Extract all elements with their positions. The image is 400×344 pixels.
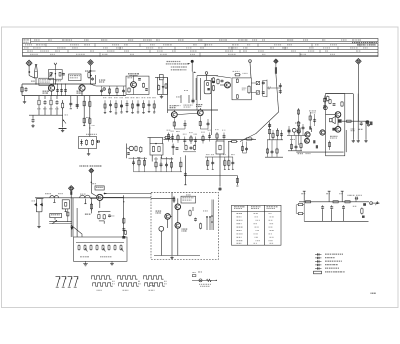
resistor R57 bbox=[83, 100, 85, 108]
wire W196 bbox=[207, 157, 209, 169]
capacitor C35 bbox=[108, 214, 111, 217]
capacitor C AGC bbox=[32, 118, 35, 123]
aux small box bbox=[192, 275, 196, 277]
resistor R65 bbox=[185, 145, 187, 151]
diode D3 bbox=[34, 203, 39, 207]
table header col2 line2 bbox=[251, 207, 259, 210]
table text entry bbox=[357, 44, 364, 45]
wire W202 bbox=[211, 200, 213, 231]
equals mark 2 bbox=[112, 282, 115, 285]
table cell bbox=[237, 243, 242, 244]
wire W165 bbox=[49, 221, 72, 223]
capacitor C14 bbox=[208, 135, 211, 138]
wire W4 bbox=[35, 78, 37, 84]
label AM osc line2 bbox=[130, 75, 138, 76]
switch resistor R23 bbox=[102, 244, 104, 250]
table cell bbox=[256, 230, 259, 231]
table text entry bbox=[323, 47, 330, 48]
capacitor C48 dark bbox=[363, 203, 366, 206]
resistor R58 bbox=[83, 117, 85, 125]
junction in coil box bbox=[55, 73, 56, 74]
ground tick 2 bbox=[137, 112, 138, 114]
table text entry bbox=[27, 51, 33, 52]
wire W201 bbox=[236, 176, 238, 186]
transistor TS5 IF amp BF195 bbox=[197, 110, 203, 116]
ground left column bbox=[23, 100, 26, 103]
value label bbox=[208, 129, 211, 132]
table cell bbox=[237, 216, 242, 217]
capacitor C40 dark bbox=[332, 128, 335, 131]
resistor R14 emitter bbox=[199, 120, 201, 126]
switch resistor R21 bbox=[90, 244, 92, 250]
value bbox=[359, 129, 363, 130]
wire W38 bbox=[153, 100, 155, 112]
label P1 bbox=[65, 114, 68, 117]
value bbox=[137, 156, 140, 159]
table cell bbox=[237, 233, 243, 234]
table cell bbox=[255, 237, 258, 238]
table cell bbox=[269, 220, 273, 221]
wire W149 bbox=[160, 157, 162, 172]
label box TS10 bbox=[181, 196, 196, 203]
wire W63 bbox=[162, 80, 164, 95]
element bottom-left bbox=[236, 94, 238, 98]
note text line bbox=[166, 63, 189, 64]
label detector bbox=[86, 134, 97, 135]
capacitor C8 bbox=[122, 90, 125, 93]
table text entry bbox=[282, 47, 288, 48]
coupling capacitor C1 bbox=[56, 89, 59, 92]
box dashed AF output stage bbox=[151, 192, 218, 259]
label text bbox=[184, 105, 193, 106]
wire W164 bbox=[54, 218, 56, 220]
legend symbol row 6 resistor bbox=[314, 271, 322, 274]
wire W6 bbox=[54, 79, 56, 84]
value label bbox=[201, 131, 205, 134]
resistor R66 bbox=[193, 145, 195, 151]
wire W188 bbox=[160, 231, 162, 255]
ground switch bbox=[37, 225, 40, 228]
value bbox=[32, 200, 36, 203]
transistor TS18 pre-driver bbox=[305, 132, 310, 137]
winding L8 bbox=[152, 146, 154, 152]
junction bus bbox=[90, 83, 91, 84]
IF capacitor C6 bbox=[126, 103, 129, 106]
resistor R11 bbox=[158, 85, 160, 91]
box IF transformer S3 bbox=[150, 144, 163, 156]
table text entry bbox=[262, 39, 265, 40]
capacitor C17 bbox=[160, 162, 163, 167]
wire W77 bbox=[180, 95, 182, 103]
element inside bbox=[65, 202, 67, 207]
table text entry bbox=[116, 47, 123, 48]
table text entry bbox=[101, 39, 107, 40]
wire W145 bbox=[138, 157, 140, 172]
transistor TS20 dark bbox=[366, 120, 370, 124]
wire W185 bbox=[170, 215, 172, 217]
coil L3 box bbox=[159, 75, 163, 80]
tick bbox=[83, 125, 85, 127]
table header col1 line2 bbox=[234, 207, 242, 210]
wire W60 bbox=[192, 72, 194, 99]
parts-list table border bbox=[23, 39, 379, 57]
value label bbox=[49, 107, 53, 110]
capacitor C4 bbox=[91, 77, 94, 80]
transistor TS4 IF amp BF194 bbox=[171, 112, 177, 118]
table cell divider bbox=[337, 47, 339, 50]
module label line2 bbox=[330, 137, 337, 140]
earphone jack terminal bbox=[370, 202, 373, 205]
wire W156 bbox=[35, 199, 37, 212]
table text entry bbox=[219, 39, 227, 40]
wire W84 bbox=[215, 76, 231, 78]
wire W18 bbox=[95, 75, 97, 84]
junction osc bus bbox=[55, 83, 56, 84]
value label above bbox=[109, 96, 112, 99]
wire W219 bbox=[345, 130, 347, 152]
wire W49 bbox=[62, 100, 64, 103]
wire W58 bbox=[191, 63, 193, 72]
speaker symbol bbox=[330, 117, 336, 124]
wire W12 bbox=[51, 91, 53, 96]
resistor R60 bbox=[89, 117, 91, 125]
wire W203 bbox=[213, 200, 215, 231]
wire W28 bbox=[90, 84, 96, 86]
table header line bbox=[232, 211, 282, 213]
resistor R12 bbox=[165, 83, 167, 89]
wire W117 bbox=[276, 140, 278, 157]
bus label c bbox=[80, 193, 86, 196]
resistor R28 bbox=[300, 143, 302, 149]
IF resistor R4 bbox=[131, 103, 133, 109]
value label above bbox=[142, 96, 146, 99]
arrow mark on link wire bbox=[104, 193, 107, 195]
resistor R41 bbox=[124, 230, 126, 235]
capacitor C17 bbox=[262, 82, 265, 85]
diode D7 bbox=[256, 91, 259, 94]
bus label b bbox=[58, 192, 63, 195]
square wave lower bbox=[145, 283, 165, 286]
wire W171 bbox=[91, 193, 97, 196]
wire W197 bbox=[212, 157, 214, 169]
table text entry bbox=[369, 44, 375, 45]
value line2 bbox=[242, 88, 245, 91]
ground tick 2 bbox=[115, 113, 116, 115]
transistor TS2 AM osc bbox=[79, 85, 85, 91]
resistor R59 bbox=[89, 100, 91, 108]
wire W27 bbox=[96, 85, 126, 87]
legend symbol row 1 bbox=[315, 253, 322, 255]
FM input terminal bbox=[103, 88, 106, 91]
ground tick bbox=[120, 111, 122, 113]
capacitor C12 bbox=[207, 122, 210, 126]
table cell divider bbox=[99, 53, 101, 57]
wire W206 bbox=[352, 94, 354, 139]
transistor TS1 AM mixer bbox=[48, 85, 54, 91]
wire W139 bbox=[172, 144, 174, 155]
wire W123 bbox=[288, 126, 290, 136]
table text entry bbox=[228, 54, 236, 55]
resistor R42 bbox=[189, 210, 191, 217]
wire W215 bbox=[342, 120, 369, 122]
value label bbox=[176, 130, 180, 133]
box FM tuner unit bbox=[126, 76, 149, 94]
wire W200 bbox=[228, 157, 230, 169]
table text entry bbox=[157, 51, 163, 52]
table cell divider bbox=[299, 53, 301, 57]
IF resistor R6 bbox=[153, 103, 155, 109]
table text entry bbox=[143, 39, 152, 40]
antenna value label bbox=[31, 81, 35, 82]
resistor R17 bbox=[217, 79, 219, 85]
capacitor C7 bbox=[100, 90, 103, 93]
speaker terminal dot 1 bbox=[206, 216, 208, 218]
table text entry bbox=[30, 54, 38, 55]
table cell bbox=[270, 237, 274, 238]
table text entry bbox=[363, 47, 368, 48]
wire W226 bbox=[343, 210, 345, 222]
resistor R10 bbox=[91, 139, 93, 145]
resistor R51 bbox=[304, 201, 312, 203]
wire W214 bbox=[311, 128, 313, 132]
table text entry bbox=[308, 51, 314, 52]
table cell text bbox=[23, 39, 28, 40]
wire W26 bbox=[123, 86, 125, 96]
table text entry bbox=[238, 39, 248, 40]
wire W157 bbox=[41, 199, 43, 212]
wire W109 bbox=[228, 141, 232, 143]
wire W69 bbox=[199, 108, 201, 110]
table cell bbox=[255, 227, 259, 228]
resistor R61 bbox=[228, 159, 230, 167]
resistor R20 bbox=[268, 129, 270, 135]
dot on rail bbox=[211, 215, 213, 217]
wire W64 bbox=[167, 77, 169, 94]
text under rail bbox=[298, 153, 303, 154]
wire W167 bbox=[67, 209, 69, 222]
resistor R25 bbox=[241, 146, 243, 152]
value label above bbox=[152, 96, 156, 99]
value label bbox=[171, 130, 174, 133]
transistor TS20 small bbox=[297, 130, 300, 133]
wire W19 bbox=[89, 70, 96, 72]
value label bbox=[55, 107, 59, 110]
table text entry bbox=[325, 51, 328, 52]
table text entry bbox=[103, 47, 108, 48]
capacitor C28 bbox=[127, 152, 130, 155]
wire W95 bbox=[267, 87, 280, 89]
value label bbox=[184, 89, 188, 92]
box switch assembly bbox=[74, 237, 128, 261]
junction bbox=[91, 182, 92, 183]
table text entry bbox=[33, 47, 41, 48]
capacitor C43 dark bbox=[370, 122, 373, 126]
capacitor C6 bbox=[145, 88, 148, 91]
wire W199 bbox=[232, 157, 234, 169]
switch contact 2 bbox=[328, 190, 331, 192]
capacitor C46 bbox=[330, 205, 333, 210]
wire W67 bbox=[168, 109, 219, 111]
table cell divider bbox=[30, 39, 32, 44]
resistor R5 bbox=[142, 83, 144, 88]
wire W133 bbox=[123, 195, 125, 237]
label box mixer stage bbox=[39, 78, 54, 85]
winding L4 bbox=[248, 85, 250, 94]
wire W209 bbox=[326, 114, 336, 116]
capacitor C11 bbox=[171, 136, 174, 139]
wire W154 bbox=[184, 175, 237, 177]
capacitor C55 bbox=[323, 105, 326, 108]
table entry dark 2 bbox=[357, 44, 376, 45]
arrow mark bbox=[194, 72, 197, 73]
wire W162 bbox=[84, 199, 86, 204]
ground tick 2 bbox=[104, 113, 105, 115]
table cell bbox=[237, 213, 242, 214]
capacitor C27 bbox=[295, 145, 298, 148]
connector diamond FM aerial bbox=[88, 60, 94, 66]
box local oscillator coil bbox=[204, 80, 211, 93]
label box switch bbox=[50, 213, 62, 217]
wire W113 bbox=[272, 130, 274, 140]
table text entry bbox=[178, 39, 184, 40]
capacitor C53 bbox=[76, 104, 79, 107]
resistor R1 input bbox=[21, 86, 23, 94]
capacitor C30 bbox=[176, 147, 179, 150]
capacitor C45 bbox=[321, 205, 324, 210]
note text line bbox=[167, 61, 181, 62]
wire W198 bbox=[224, 157, 226, 169]
module label line1 bbox=[330, 136, 337, 137]
ground tick bbox=[109, 111, 111, 113]
terminal AFC diamond bbox=[274, 59, 278, 63]
wire W52 bbox=[70, 96, 72, 108]
wire W94 bbox=[279, 83, 281, 94]
IF capacitor C5 bbox=[120, 104, 123, 107]
wire W173 bbox=[103, 196, 124, 198]
table text entry bbox=[291, 51, 296, 52]
legend text bbox=[325, 257, 335, 258]
box audio output module bbox=[326, 94, 345, 156]
resistor R47 bbox=[309, 115, 311, 121]
wire W126 bbox=[302, 124, 304, 136]
resistor R63 bbox=[297, 121, 299, 127]
value bbox=[186, 194, 191, 197]
wire W129 bbox=[300, 136, 302, 151]
table cell bbox=[237, 227, 243, 228]
terminal tick N5 bbox=[212, 168, 214, 170]
wire W216 bbox=[357, 94, 359, 139]
capacitor C16 bbox=[221, 80, 224, 83]
capacitor C25 bbox=[288, 129, 291, 134]
capacitor C38 bbox=[194, 218, 197, 222]
table text entry bbox=[190, 54, 195, 55]
dark element pair bbox=[313, 140, 315, 143]
wire W213 bbox=[324, 96, 326, 111]
capacitor C51 bbox=[219, 187, 222, 191]
table text entry bbox=[303, 39, 308, 40]
diode D4 bbox=[40, 203, 45, 207]
wire W89 bbox=[251, 82, 256, 84]
resistor R44 bbox=[327, 96, 329, 102]
table text entry bbox=[225, 51, 233, 52]
value label bbox=[194, 133, 197, 136]
value bbox=[203, 210, 208, 213]
ground audio 1 bbox=[352, 139, 355, 142]
wire W163 bbox=[65, 209, 67, 212]
value label bbox=[43, 107, 47, 110]
capacitor C47 bbox=[342, 205, 345, 210]
label FM aerial bbox=[99, 80, 105, 81]
table column line 1 bbox=[247, 205, 249, 245]
resistor R16 bbox=[155, 161, 157, 169]
wire W81 bbox=[206, 74, 208, 80]
transistor TS3 FM mixer AF115 bbox=[131, 82, 137, 88]
transistor TS8 AM IF bbox=[129, 146, 133, 150]
winding L9 bbox=[158, 146, 160, 152]
label TS11 bbox=[156, 211, 162, 212]
wire W14 bbox=[81, 91, 83, 96]
capacitor C19 bbox=[279, 85, 282, 88]
resistor R31 bbox=[164, 136, 172, 138]
transistor TS14 small bbox=[324, 106, 328, 110]
table cell bbox=[269, 213, 272, 214]
junction bbox=[123, 201, 124, 202]
wire W161 bbox=[53, 199, 55, 202]
junction N3 bbox=[65, 84, 66, 85]
capacitor C49 bbox=[355, 197, 358, 200]
resistor R26 bbox=[298, 127, 300, 133]
table cell bbox=[237, 240, 243, 241]
wire W121 bbox=[243, 152, 247, 154]
aux note line1 bbox=[198, 271, 202, 274]
table text entry bbox=[258, 51, 264, 52]
wire W61 bbox=[155, 76, 168, 78]
terminal tick N6 bbox=[224, 168, 226, 170]
capacitor C39 dark bbox=[338, 119, 342, 122]
wire W105 bbox=[209, 133, 211, 142]
value label bbox=[211, 153, 214, 156]
ground tick 2 bbox=[126, 112, 127, 114]
wire W134 bbox=[104, 193, 152, 195]
table cell divider bbox=[174, 47, 176, 50]
table text entry bbox=[350, 47, 358, 48]
dark contact marks bbox=[309, 126, 311, 129]
wire W136 bbox=[149, 138, 151, 144]
value bbox=[353, 205, 356, 208]
table text entry bbox=[72, 47, 78, 48]
resistor R53 bbox=[343, 201, 351, 203]
terminal tick N7 bbox=[232, 168, 234, 170]
wire W47 bbox=[56, 107, 58, 116]
IF output transformer box bbox=[216, 141, 224, 154]
wire W53 bbox=[76, 96, 78, 109]
label AM osc bbox=[128, 73, 139, 74]
resistor R19 bbox=[245, 138, 254, 140]
TS9 label text bbox=[96, 187, 103, 188]
table text entry bbox=[57, 47, 66, 48]
label bbox=[348, 195, 355, 196]
value 104 in box bbox=[242, 88, 246, 89]
wire W71 bbox=[184, 120, 186, 129]
wire W29 bbox=[104, 100, 106, 112]
wire W5 bbox=[54, 70, 56, 80]
table text entry bbox=[36, 44, 45, 45]
capacitor C22 bbox=[280, 133, 283, 137]
connector diamond AF out bbox=[89, 168, 94, 173]
wire W45 bbox=[50, 107, 52, 116]
wire W55 bbox=[89, 96, 91, 137]
wire W144 bbox=[134, 171, 183, 173]
